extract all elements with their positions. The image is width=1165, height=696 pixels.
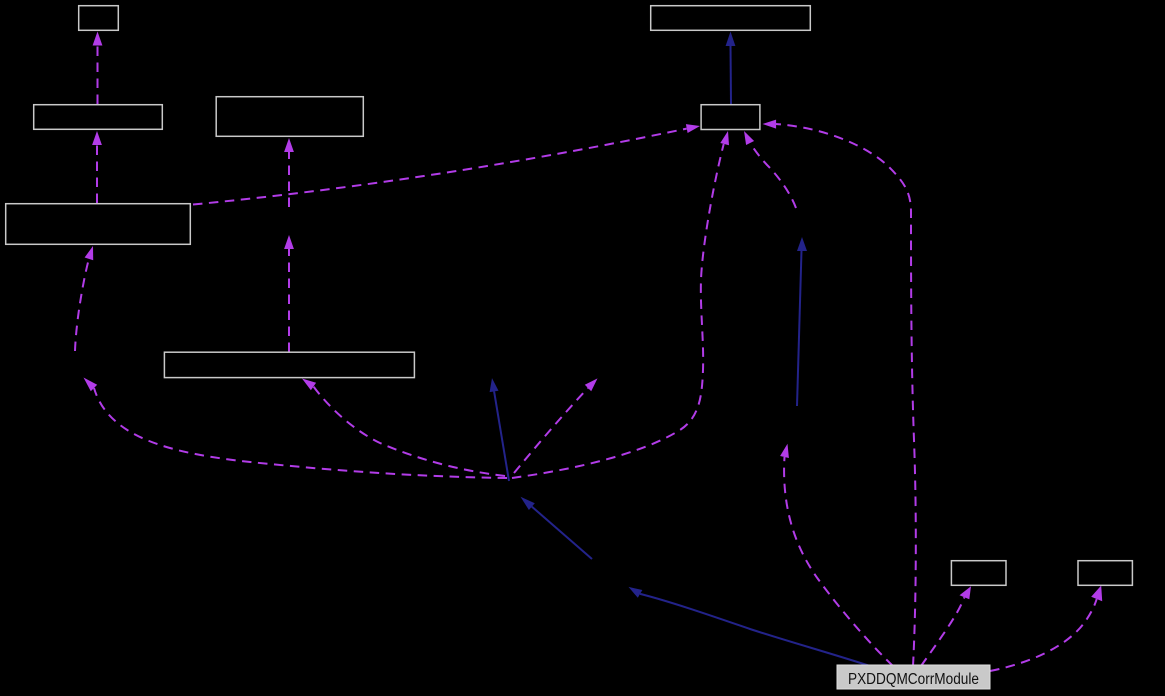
edge U to Y solid blue — [532, 507, 592, 559]
arrowhead into M — [302, 379, 316, 391]
edge Y to N2 dashed — [514, 388, 588, 473]
node PXDDQMCorrModule — [837, 665, 990, 689]
arrowhead into F right — [763, 120, 777, 129]
arrowhead into W — [797, 237, 807, 251]
node C box tall — [6, 204, 191, 245]
arrowhead into E — [726, 32, 736, 47]
arrowhead into F bottom-left — [720, 131, 729, 145]
edge W to F dashed — [750, 143, 796, 208]
edge C to B dashed — [96, 145, 98, 204]
node E box top-center — [651, 6, 811, 31]
edge B to A dashed — [97, 45, 99, 104]
edge Y to X dashed long left curve — [94, 388, 507, 478]
node D box tall — [216, 97, 363, 137]
node M box wide — [164, 352, 414, 377]
node G box — [951, 561, 1006, 586]
edge F to E solid blue vertical — [730, 46, 733, 105]
arrowhead into N1 — [490, 378, 499, 392]
edge C to F long diagonal dashed — [193, 129, 687, 205]
arrowhead into A — [93, 32, 103, 46]
node B box — [34, 105, 163, 130]
svg-text:PXDDQMCorrModule: PXDDQMCorrModule — [848, 671, 979, 688]
arrowhead into U — [629, 587, 643, 598]
edge Y to F big right dashed curve — [512, 144, 724, 478]
edge Y to N1 solid blue — [494, 391, 509, 481]
arrowhead into C — [85, 246, 94, 260]
arrowhead into G — [960, 586, 972, 599]
edge PXDDQMCorrModule to V dashed — [784, 457, 893, 666]
edge X to C dashed — [75, 259, 89, 351]
arrowhead into H — [1091, 586, 1102, 602]
edge Z to D dashed vertical — [288, 152, 290, 208]
edge Y to M dashed curve — [314, 387, 506, 477]
arrowhead into Y — [521, 497, 535, 510]
arrowhead into B — [92, 131, 102, 145]
edge PXDDQMCorrModule to H dashed curve — [990, 599, 1097, 671]
node F box small center — [701, 105, 760, 130]
arrowhead into D — [284, 138, 294, 152]
edge PXDDQMCorrModule to G dashed — [921, 597, 964, 666]
edge V to W solid blue vertical — [797, 251, 802, 407]
arrowhead into V — [780, 444, 789, 458]
edge M to Z dashed vertical — [288, 249, 290, 353]
node A box top-left — [79, 6, 119, 31]
node H box — [1078, 561, 1132, 586]
arrowhead into N2 — [585, 378, 598, 391]
arrowhead into X — [84, 378, 98, 392]
edge PXDDQMCorrModule to U solid blue curve — [640, 594, 870, 666]
edge PXDDQMCorrModule to F long right dashed curve — [776, 124, 916, 666]
arrowhead into F left — [686, 124, 700, 133]
arrowhead into Z — [284, 235, 294, 249]
arrowhead into F bottom-right — [744, 131, 754, 145]
